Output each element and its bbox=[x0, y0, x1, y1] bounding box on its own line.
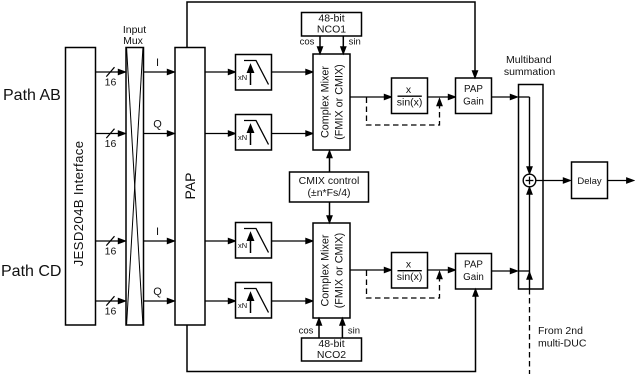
dashed bypass around x/sin(x) 1 bbox=[367, 98, 443, 126]
block PAP Gain 1 bbox=[456, 78, 492, 114]
wire AB Q: mux to PAP bbox=[144, 131, 175, 136]
wire CD Q: JESD to mux (16-bit bus) bbox=[96, 296, 126, 305]
block Delay bbox=[572, 162, 608, 199]
block Complex Mixer 2 (FMIX or CMIX) bbox=[313, 223, 350, 318]
wire AB Q: filter to complex mixer bbox=[272, 131, 314, 136]
svg-text:multi-DUC: multi-DUC bbox=[538, 338, 587, 350]
wire PAP bottom feedback to PAP Gain 2 bbox=[187, 289, 478, 372]
svg-text:I: I bbox=[156, 57, 159, 69]
wire AB Q: JESD to mux (16-bit bus) bbox=[96, 129, 126, 138]
svg-text:summation: summation bbox=[504, 66, 556, 78]
label Multiband summation bbox=[504, 54, 556, 78]
svg-text:cos: cos bbox=[299, 326, 314, 337]
svg-text:Mux: Mux bbox=[123, 35, 144, 47]
wire mixer 1 output to x/sin(x) 1 bbox=[350, 94, 392, 99]
wire CD Q: PAP to interpolation filter bbox=[205, 298, 236, 303]
wire NCO2 sin output to mixer 2 bbox=[340, 318, 345, 338]
svg-text:PAP: PAP bbox=[464, 84, 483, 95]
svg-text:Path CD: Path CD bbox=[1, 263, 61, 280]
svg-text:Gain: Gain bbox=[463, 97, 484, 108]
wire Delay output bbox=[608, 178, 634, 183]
svg-text:sin(x): sin(x) bbox=[397, 97, 423, 109]
svg-text:NCO1: NCO1 bbox=[317, 24, 346, 36]
svg-text:(±n*Fs/4): (±n*Fs/4) bbox=[307, 187, 350, 199]
wire x/sin(x) 2 to PAP Gain 2 bbox=[428, 267, 456, 272]
svg-text:xN: xN bbox=[238, 241, 247, 250]
block CMIX control bbox=[290, 172, 369, 202]
svg-text:I: I bbox=[156, 226, 159, 238]
svg-text:(FMIX or CMIX): (FMIX or CMIX) bbox=[334, 64, 346, 140]
adder (plus circle) bbox=[523, 174, 536, 187]
wire summation node A down to adder bbox=[527, 97, 532, 174]
svg-text:16: 16 bbox=[105, 306, 117, 318]
svg-text:x: x bbox=[406, 259, 412, 271]
svg-text:From 2nd: From 2nd bbox=[538, 325, 583, 337]
svg-text:(FMIX or CMIX): (FMIX or CMIX) bbox=[334, 233, 346, 309]
wire CD Q: mux to PAP bbox=[144, 298, 175, 303]
wire CD I: filter to complex mixer bbox=[272, 238, 314, 243]
wire mixer 2 output to x/sin(x) 2 bbox=[350, 267, 392, 272]
wire AB I: PAP to interpolation filter bbox=[205, 69, 236, 74]
svg-text:Gain: Gain bbox=[463, 272, 484, 283]
wire AB Q: PAP to interpolation filter bbox=[205, 131, 236, 136]
wire AB I: JESD to mux (16-bit bus) bbox=[96, 67, 126, 76]
svg-text:Multiband: Multiband bbox=[506, 54, 552, 66]
svg-text:Complex Mixer: Complex Mixer bbox=[320, 234, 332, 306]
block Complex Mixer 1 (FMIX or CMIX) bbox=[313, 54, 350, 150]
wire AB I: mux to PAP bbox=[144, 69, 175, 74]
block PAP Gain 2 bbox=[456, 254, 492, 290]
wire CD I: JESD to mux (16-bit bus) bbox=[96, 236, 126, 245]
wire CMIX control to mixer 1 bbox=[327, 151, 332, 173]
svg-text:cos: cos bbox=[300, 37, 315, 48]
wire x/sin(x) 1 to PAP Gain 1 bbox=[428, 94, 456, 99]
label From 2nd multi-DUC bbox=[538, 325, 587, 350]
wire CMIX control to mixer 2 bbox=[327, 202, 332, 223]
svg-text:Path AB: Path AB bbox=[3, 87, 61, 104]
svg-text:x: x bbox=[406, 84, 412, 96]
interpolation filter xN block 3 bbox=[236, 223, 272, 259]
block PAP bbox=[175, 48, 205, 326]
block 48-bit NCO1 bbox=[302, 13, 362, 37]
wire adder to Delay bbox=[536, 178, 571, 183]
svg-text:PAP: PAP bbox=[464, 260, 483, 271]
svg-text:16: 16 bbox=[105, 77, 117, 89]
svg-text:NCO2: NCO2 bbox=[317, 349, 346, 361]
block 48-bit NCO2 bbox=[302, 338, 362, 361]
svg-text:PAP: PAP bbox=[182, 173, 198, 200]
svg-text:xN: xN bbox=[238, 133, 247, 142]
wire NCO1 sin output to mixer 1 bbox=[341, 36, 346, 54]
block Input Mux bbox=[126, 48, 144, 326]
block x/sin(x) 1 bbox=[392, 78, 428, 114]
wire PAP Gain 1 to summation bbox=[492, 94, 530, 99]
wire CD I: mux to PAP bbox=[144, 238, 175, 243]
block multiband summation bbox=[519, 85, 544, 290]
dashed bypass around x/sin(x) 2 bbox=[367, 271, 443, 299]
svg-text:sin: sin bbox=[348, 326, 360, 337]
wire AB I: filter to complex mixer bbox=[272, 69, 314, 74]
svg-text:xN: xN bbox=[238, 73, 247, 82]
block x/sin(x) 2 bbox=[392, 253, 428, 289]
svg-text:Q: Q bbox=[153, 119, 162, 131]
svg-text:sin(x): sin(x) bbox=[397, 271, 423, 283]
svg-text:16: 16 bbox=[105, 246, 117, 258]
wire PAP Gain 2 to summation bbox=[492, 268, 530, 273]
label Input Mux bbox=[123, 24, 146, 47]
svg-text:CMIX control: CMIX control bbox=[299, 175, 360, 187]
svg-text:sin: sin bbox=[349, 37, 361, 48]
wire NCO2 cos output to mixer 2 bbox=[316, 318, 321, 338]
wire summation node B up to adder bbox=[527, 187, 532, 271]
wire from-2nd-DUC input inside summation bbox=[527, 271, 532, 289]
svg-text:JESD204B Interface: JESD204B Interface bbox=[71, 141, 86, 267]
wire CD I: PAP to interpolation filter bbox=[205, 238, 236, 243]
interpolation filter xN block 2 bbox=[236, 115, 272, 151]
wire CD Q: filter to complex mixer bbox=[272, 298, 314, 303]
dashed wire from 2nd multi-DUC bbox=[529, 289, 531, 374]
interpolation filter xN block 4 bbox=[236, 283, 272, 319]
svg-text:xN: xN bbox=[238, 301, 247, 310]
svg-text:Delay: Delay bbox=[577, 176, 602, 187]
wire PAP top feedback to PAP Gain 1 bbox=[187, 2, 478, 78]
wire NCO1 cos output to mixer 1 bbox=[317, 36, 322, 54]
svg-text:Complex Mixer: Complex Mixer bbox=[320, 66, 332, 138]
svg-text:16: 16 bbox=[105, 138, 117, 150]
svg-text:Q: Q bbox=[153, 286, 162, 298]
block JESD204B Interface bbox=[66, 48, 96, 326]
interpolation filter xN block 1 bbox=[236, 55, 272, 91]
